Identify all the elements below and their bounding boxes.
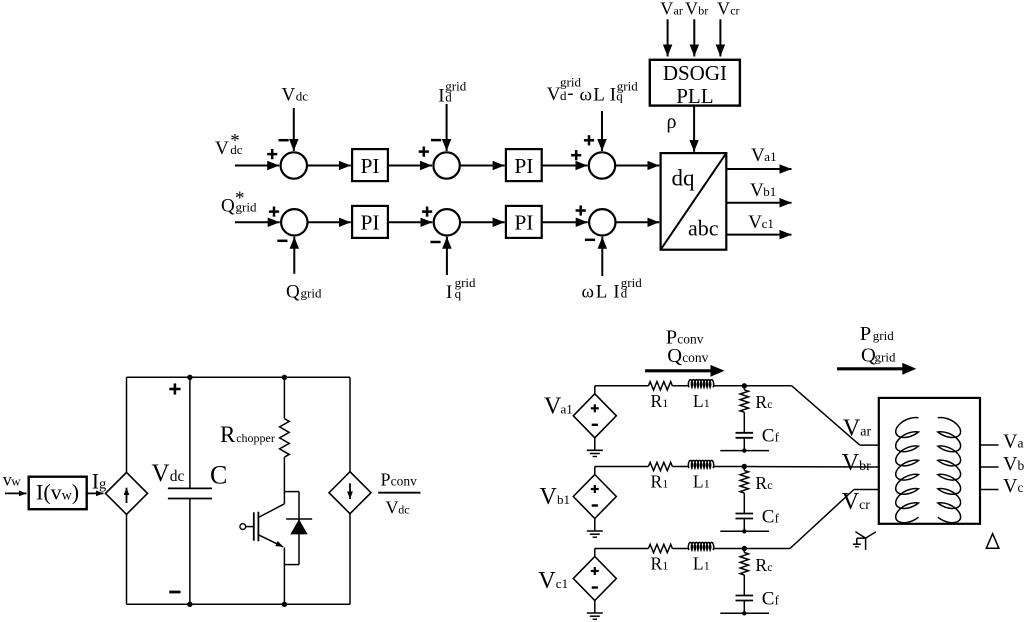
svg-text:abc: abc (688, 216, 719, 241)
svg-text:PI: PI (514, 211, 533, 235)
svg-text:Cf: Cf (762, 506, 780, 527)
svg-text:DSOGI: DSOGI (663, 61, 727, 85)
svg-text:C: C (210, 461, 227, 490)
svg-text:Qgrid: Qgrid (286, 282, 322, 303)
svg-text:Va1: Va1 (751, 145, 777, 166)
svg-text:PI: PI (514, 154, 533, 178)
svg-text:Vbr: Vbr (685, 0, 708, 19)
svg-text:Cf: Cf (762, 588, 780, 609)
svg-text:Vb1: Vb1 (750, 180, 776, 201)
svg-text:Vdc: Vdc (282, 85, 309, 106)
svg-text:PI: PI (360, 154, 379, 178)
svg-text:PLL: PLL (676, 84, 713, 108)
svg-text:I(vw): I(vw) (36, 479, 79, 504)
svg-text:ρ: ρ (667, 111, 677, 133)
svg-text:Vc1: Vc1 (748, 212, 774, 233)
svg-text:dq: dq (672, 166, 696, 191)
svg-text:Vcr: Vcr (717, 0, 740, 19)
svg-text:PI: PI (360, 211, 379, 235)
svg-text:Var: Var (660, 0, 683, 19)
svg-text:Cf: Cf (762, 426, 780, 447)
